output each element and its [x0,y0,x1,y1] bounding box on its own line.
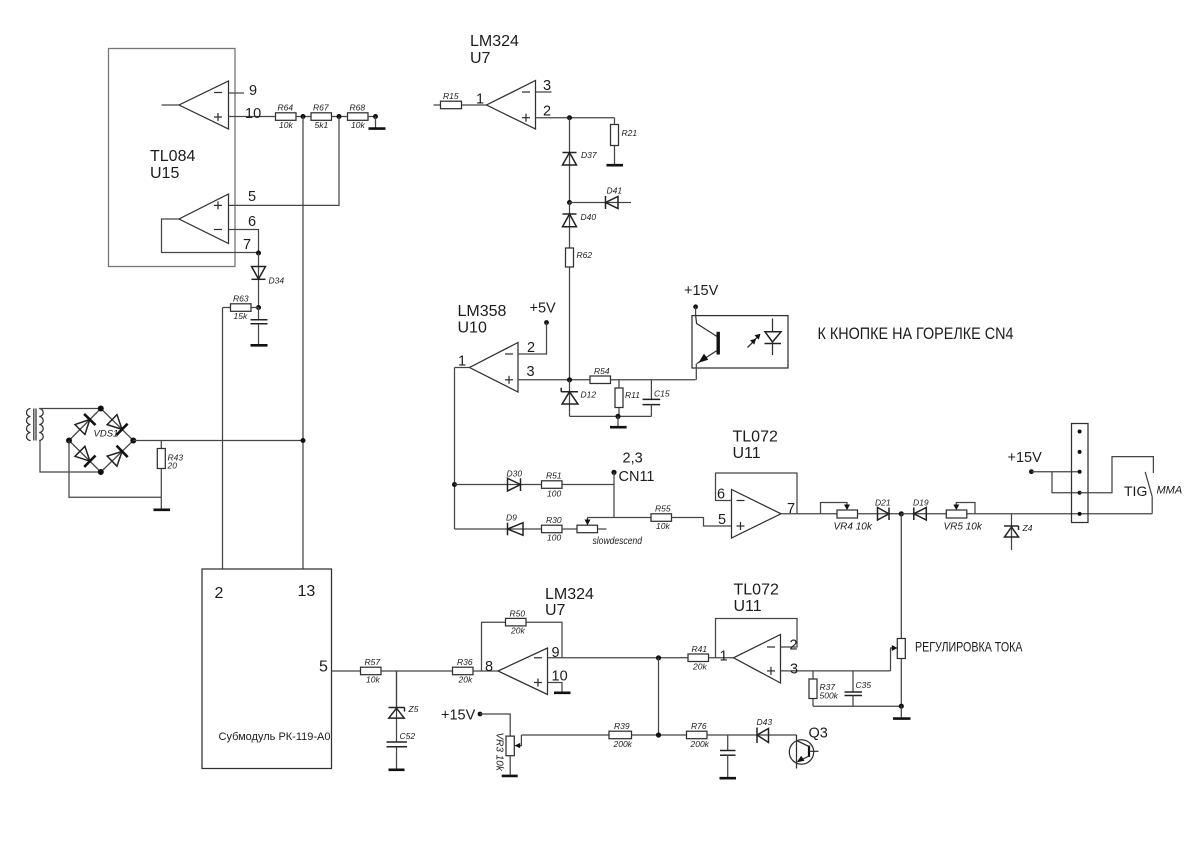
pin 3 wire U10 [518,364,590,380]
svg-text:TIG: TIG [1124,483,1147,499]
wire bridge left node to ground run [69,441,161,498]
svg-text:CN11: CN11 [619,469,655,485]
IC label LM358 U10 [458,303,507,337]
node CN11 [611,451,654,486]
bridge diode bottom-left [75,446,96,467]
svg-text:R51: R51 [546,471,562,481]
svg-text:D40: D40 [581,212,597,222]
op-amp U11A [732,490,782,539]
wire +15V branch to pin4 [1052,472,1080,493]
svg-text:200k: 200k [613,739,633,749]
wire R64 junction down to submodule pin 13 [302,117,304,570]
svg-text:R30: R30 [546,515,562,525]
node R41 junction [656,655,661,660]
resistor R62 [566,248,593,380]
svg-text:D37: D37 [581,150,597,160]
svg-text:+15V: +15V [441,708,476,724]
diode D43 [757,717,797,743]
capacitor C52 [387,731,416,769]
wire VR5 to switch [967,513,1152,515]
svg-text:100: 100 [547,489,561,499]
svg-text:U10: U10 [458,320,487,337]
svg-text:U11: U11 [733,445,761,462]
svg-text:10k: 10k [351,120,365,130]
svg-text:10k: 10k [366,675,380,685]
svg-text:D12: D12 [581,390,597,400]
node U7A output junction [567,115,572,120]
diode D21 [858,498,902,521]
resistor R55 [651,504,732,532]
svg-text:+5V: +5V [530,301,557,317]
resistor R11 [615,380,640,417]
svg-text:20k: 20k [458,675,473,685]
node R11 bottom junction [615,414,620,419]
op-amp U7A [487,81,536,130]
wire to D30 [455,484,508,486]
power +15V bottom [441,708,510,737]
node bridge output on pin13 wire [301,438,306,443]
power +5V [518,301,556,355]
wire R67/R68 junction down to pin5 [229,117,340,206]
svg-text:R15: R15 [443,91,459,101]
svg-text:R41: R41 [692,644,708,654]
power +15V optocoupler [684,283,719,316]
svg-text:U7: U7 [545,602,566,619]
optocoupler light arrows [748,334,761,348]
bridge diode top-right [107,415,127,436]
potentiometer VR5 [944,503,983,533]
transistor Q3 [789,726,828,769]
U15B feedback wire to pin 7 [162,219,259,253]
svg-text:Q3: Q3 [809,726,828,742]
diode D40 [563,203,597,249]
resistor R63 [223,294,259,322]
resistor R36 [453,657,499,685]
svg-text:+15V: +15V [684,283,719,299]
svg-text:VR5 10k: VR5 10k [944,522,983,533]
wire transformer to bridge bottom [39,441,101,473]
pin 1 output U10 [455,354,470,530]
IC block TL084 U15 [109,49,236,267]
wire CN11 vertical [613,472,615,517]
svg-text:U15: U15 [150,165,179,182]
svg-text:6: 6 [248,214,256,230]
IC label LM324 U7 [470,33,519,67]
ground below capacitor [251,344,268,347]
bridge VDS1 diamond [69,409,133,473]
svg-text:2: 2 [215,585,224,602]
op-amp U10 [470,343,519,393]
node R67/R68 junction [337,114,342,119]
svg-text:3: 3 [527,364,535,380]
pin 3 stub [536,78,552,94]
IC label LM324 U7 second [545,586,594,619]
svg-text:D34: D34 [269,276,285,286]
svg-text:TL072: TL072 [733,429,778,446]
pin 7 output wire [781,501,837,517]
node bridge top [98,406,104,412]
svg-text:+15V: +15V [1008,450,1043,466]
optocoupler phototransistor [696,315,719,380]
diode D34 [252,253,285,308]
transformer winding [27,409,44,441]
svg-text:13: 13 [298,583,316,600]
svg-text:РЕГУЛИРОВКА ТОКА: РЕГУЛИРОВКА ТОКА [915,639,1023,655]
node pin7 junction [256,251,261,256]
svg-text:5k1: 5k1 [315,120,329,130]
submodule РК-119-А0 block [202,569,332,769]
node R68 end [373,114,378,119]
IC label TL072 U11 [733,429,778,463]
svg-text:C15: C15 [654,389,670,399]
svg-text:D41: D41 [607,186,623,196]
zener Z4 [1004,514,1033,550]
node R64/R67 junction [301,114,306,119]
svg-text:5: 5 [248,189,256,205]
svg-text:D19: D19 [913,498,929,508]
op-amp U7C [498,648,548,695]
resistor R39 [609,721,687,749]
resistor R76 [687,721,758,749]
diode D9 [455,513,542,536]
svg-text:5: 5 [319,659,328,676]
resistor R64 [276,103,312,131]
svg-text:20k: 20k [692,661,707,671]
ground below C52 [389,768,405,771]
node D21/D19 junction [899,511,904,516]
svg-text:Z4: Z4 [1022,523,1033,533]
op-amp U15B [179,194,229,244]
resistor R15 [434,91,487,109]
svg-text:R55: R55 [655,504,671,514]
wire junction down to R39 row [658,658,660,735]
svg-text:R64: R64 [278,103,294,113]
svg-text:R21: R21 [622,128,638,138]
wire transformer to bridge top [39,408,101,410]
svg-text:10k: 10k [279,120,293,130]
ground below capacitor [720,777,737,780]
capacitor C15 [643,380,670,417]
potentiometer VR4 [821,503,873,533]
wire D12/R11/C15 bottom [570,415,652,417]
resistor R37 [809,671,839,706]
potentiometer VR3 [494,733,522,772]
svg-text:2,3: 2,3 [623,451,643,467]
zener Z5 [389,671,419,742]
wire bridge output [133,440,303,442]
svg-text:C35: C35 [856,680,872,690]
svg-text:VR4 10k: VR4 10k [834,522,873,533]
svg-text:D43: D43 [757,717,773,727]
wire R57 junction down [396,671,398,708]
bridge diode top-left [75,414,96,435]
svg-text:TL084: TL084 [150,148,195,165]
node U10 output junction [452,482,457,487]
resistor R43 [157,441,183,498]
diode D19 [901,498,946,521]
node bridge bottom [98,469,104,475]
diode D30 [507,469,542,492]
node R63 junction [256,305,261,310]
resistor R54 [590,366,696,384]
ground below R21 [607,164,624,167]
svg-text:R57: R57 [365,657,381,667]
svg-text:R62: R62 [577,250,593,260]
svg-text:3: 3 [790,662,798,678]
svg-text:D30: D30 [507,469,523,479]
pin 10 wire [229,106,276,122]
connector CN [1072,424,1089,523]
svg-text:LM324: LM324 [470,33,519,50]
optocoupler box [692,316,788,368]
svg-text:7: 7 [787,501,795,517]
ground below pot [893,706,911,718]
node R62/pin3 junction [567,377,572,382]
svg-text:10: 10 [552,669,568,685]
svg-text:R68: R68 [350,103,366,113]
ground below R11 [610,416,627,427]
ground below R43 [154,497,171,510]
svg-text:Z5: Z5 [408,704,419,714]
svg-text:R50: R50 [510,608,526,618]
pin 10 wire and ground [548,669,571,693]
svg-text:R67: R67 [313,103,329,113]
bridge diode bottom-right [107,446,128,467]
svg-text:Субмодуль РК-119-А0: Субмодуль РК-119-А0 [219,731,331,743]
pin 9 stub [229,83,258,99]
svg-text:slowdescend: slowdescend [593,536,643,547]
optocoupler LED [765,319,782,356]
svg-text:C52: C52 [400,731,416,741]
svg-text:VR3 10k: VR3 10k [494,733,505,772]
capacitor below D34 [251,308,268,345]
svg-text:LM324: LM324 [545,586,594,603]
wire VR3 wiper to R39 [521,734,609,736]
resistor R57 [361,657,453,685]
svg-text:3: 3 [543,78,551,94]
wire R37 bottom row [813,705,901,707]
node pot bottom junction [899,704,904,709]
node bridge right [130,438,136,444]
op-amp U11B [734,635,781,684]
svg-text:20k: 20k [510,626,525,636]
svg-text:VDS1: VDS1 [94,429,119,440]
svg-text:100: 100 [547,533,561,543]
wire wiper row [588,517,652,519]
pin 3 wire [781,662,891,678]
power +15V right [1008,450,1080,474]
svg-text:2: 2 [543,104,551,120]
wire pin4 to switch [1080,457,1154,493]
svg-text:7: 7 [243,237,251,253]
pin 5 wire submodule [332,670,361,672]
svg-text:TL072: TL072 [734,582,779,599]
zener D12 [561,380,596,417]
resistor R51 [542,471,615,499]
node R39/R76 junction [656,732,661,737]
potentiometer slowdescend [577,518,642,548]
potentiometer РЕГУЛИРОВКА ТОКА [891,514,1023,706]
diode D41 [570,186,632,210]
svg-text:R36: R36 [457,657,473,667]
svg-text:R39: R39 [614,721,630,731]
svg-text:U11: U11 [734,598,762,615]
svg-text:D9: D9 [506,513,517,523]
svg-text:2: 2 [790,638,798,654]
pin 6 wire [229,214,259,253]
svg-text:9: 9 [249,83,257,99]
wire R63 to submodule pin 2 [222,308,224,570]
feedback loop U11B pin2 [716,619,798,658]
pin 6 feedback loop [716,473,798,514]
resistor R67 [311,103,348,131]
svg-text:R63: R63 [233,294,249,304]
switch TIG/MMA blade [1124,472,1182,514]
pin 9 wire [548,645,689,661]
svg-text:9: 9 [552,645,560,661]
IC label TL072 U11 second [734,582,779,616]
svg-text:R11: R11 [625,390,640,400]
svg-text:8: 8 [485,659,493,675]
svg-text:U7: U7 [470,50,491,67]
svg-text:К КНОПКЕ НА ГОРЕЛКЕ CN4: К КНОПКЕ НА ГОРЕЛКЕ CN4 [818,324,1014,343]
svg-text:MMA: MMA [1157,485,1183,497]
svg-text:1: 1 [458,354,466,370]
svg-text:2: 2 [527,340,535,356]
feedback loop R50 [482,608,563,671]
svg-text:10: 10 [245,106,261,122]
ground below VR3 [502,756,518,776]
svg-text:15k: 15k [234,311,248,321]
svg-text:1: 1 [720,649,728,665]
svg-text:R54: R54 [594,366,610,376]
resistor R41 [688,644,734,671]
node bridge left [66,438,72,444]
svg-text:5: 5 [718,512,726,528]
capacitor below R76 [720,735,736,777]
op-amp U15A [162,81,229,129]
capacitor C35 [845,671,872,706]
svg-text:LM358: LM358 [458,303,507,320]
ground after R68 [369,117,386,129]
svg-text:1: 1 [476,92,484,108]
pin 2 wire [536,104,615,120]
svg-text:500k: 500k [820,691,839,701]
svg-text:R76: R76 [691,721,707,731]
node D37/D40/D41 junction [567,200,572,205]
svg-text:D21: D21 [875,498,891,508]
resistor R30 [542,515,578,543]
svg-text:10k: 10k [656,521,670,531]
svg-text:20: 20 [167,461,178,471]
resistor R68 [348,103,376,131]
svg-text:200k: 200k [690,739,710,749]
svg-text:6: 6 [717,487,725,503]
diode D37 [563,118,597,203]
resistor R21 [611,118,638,164]
